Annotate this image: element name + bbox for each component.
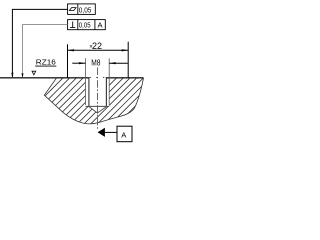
thread major dia thin line / M8 extension line (left) (85, 58, 87, 105)
M8 left arrow tail (72, 62, 85, 64)
flatness symbol (parallelogram) (69, 8, 76, 11)
M8 right arrow (109, 62, 116, 64)
hole minor dia wall left (thick) (88, 77, 90, 106)
leader from F1 to surface (12, 9, 67, 77)
feature control frame F1: flatness 0,05 (68, 4, 96, 15)
right extension line (127, 42, 129, 78)
hatching of broken-out section (0, 60, 181, 150)
thread major dia thin line / M8 extension line (right) (108, 58, 110, 105)
break line boundary of broken-out section (44, 78, 143, 124)
hole minor dia wall right (thick) (105, 77, 107, 106)
arrow left of dim 22 (68, 49, 75, 51)
svg-text:M8: M8 (91, 58, 101, 67)
roughness triangle (32, 71, 36, 75)
M8 left arrow (79, 62, 86, 64)
roughness underline (35, 65, 56, 67)
perpendicularity symbol (70, 22, 75, 28)
arrow right of dim 22 (122, 49, 129, 51)
arrowhead leader F1 (11, 73, 13, 78)
dimension line 22 (68, 49, 129, 51)
svg-text:RZ16: RZ16 (36, 57, 56, 66)
centerline of hole (96, 68, 98, 131)
M8 right arrow tail (109, 62, 128, 64)
arrowhead leader F2 (22, 73, 24, 78)
svg-text:0,05: 0,05 (79, 21, 91, 30)
drill point cone (89, 107, 107, 113)
thread end line at hole bottom (86, 105, 110, 107)
datum triangle (filled) on hole axis (98, 128, 105, 137)
feature control frame F2: perpendicularity 0,05 A (68, 20, 106, 30)
datum connector line (105, 131, 117, 133)
svg-text:0,05: 0,05 (79, 5, 92, 14)
part top surface line (0, 77, 89, 79)
left extension line (67, 44, 69, 78)
svg-text:22: 22 (92, 41, 102, 51)
datum box (117, 126, 132, 142)
leader from F2 to surface (23, 25, 68, 77)
